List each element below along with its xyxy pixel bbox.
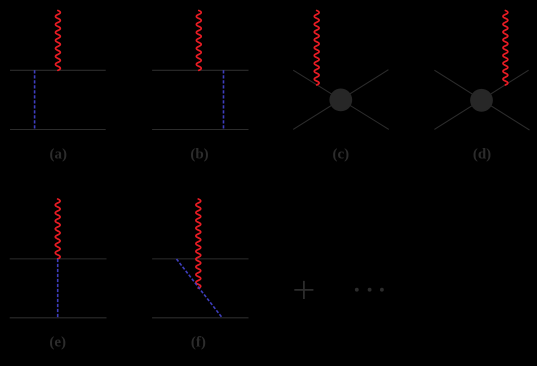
diagram (a): nucleon top line N1a <box>10 69 106 71</box>
diagram (a): pion propagator (blue dashed) <box>34 70 36 129</box>
diagram (b): nucleon top line N1b <box>152 69 248 71</box>
svg-text:(e): (e) <box>49 335 66 351</box>
svg-text:(f): (f) <box>191 335 206 351</box>
plus sign <box>294 281 313 299</box>
diagram (e): nucleon top line N1e <box>10 258 107 260</box>
svg-text:(d): (d) <box>473 147 491 163</box>
ellipsis dot 1 <box>355 288 359 292</box>
diagram (d): nucleon line UL-LR <box>434 70 529 130</box>
diagram (e): nucleon bottom line N2e <box>10 317 107 319</box>
ellipsis dot 3 <box>380 288 384 292</box>
diagram (c): photon line (red wavy) <box>314 11 319 85</box>
diagram (e): pion propagator (blue dashed) <box>57 259 59 318</box>
diagram (f): nucleon top line N1f <box>152 258 248 260</box>
diagram (d): nucleon line UR-LL <box>434 70 528 129</box>
diagram (b): photon line (red wavy) <box>196 11 201 71</box>
diagram (d): contact vertex blob <box>470 89 493 112</box>
diagram (c): nucleon line UR-LL <box>293 70 388 130</box>
diagram (e): photon line (red wavy) <box>55 199 60 259</box>
diagram (b): pion propagator (blue dashed) <box>223 70 225 129</box>
svg-text:(c): (c) <box>332 147 349 163</box>
ellipsis dot 2 <box>368 288 372 292</box>
diagram (a): photon line (red wavy) <box>56 11 61 71</box>
svg-text:(a): (a) <box>50 147 68 163</box>
diagram (f): pion propagator (blue dashed diagonal) <box>177 259 223 318</box>
diagram (c): contact vertex blob <box>329 89 352 112</box>
diagram (f): photon line (red wavy) <box>196 199 201 288</box>
diagram (a): nucleon bottom line N2a <box>10 129 106 131</box>
svg-text:(b): (b) <box>190 147 208 163</box>
diagram (b): nucleon bottom line N2b <box>152 129 248 131</box>
diagram (d): photon line (red wavy) <box>503 11 508 85</box>
diagram (c): nucleon line UL-LR <box>293 70 389 129</box>
diagram (f): nucleon bottom line N2f <box>152 317 248 319</box>
